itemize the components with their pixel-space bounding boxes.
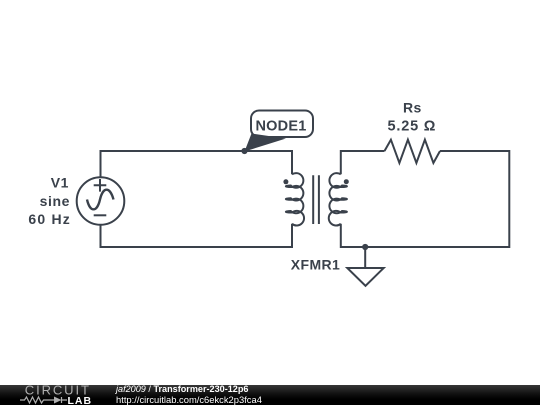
svg-text:Rs: Rs	[403, 100, 422, 116]
svg-text:XFMR1: XFMR1	[291, 257, 340, 273]
svg-text:LAB: LAB	[68, 395, 93, 405]
svg-text:5.25 Ω: 5.25 Ω	[388, 119, 437, 135]
svg-text:sine: sine	[40, 193, 70, 209]
svg-text:NODE1: NODE1	[256, 119, 307, 135]
svg-text:V1: V1	[51, 175, 69, 191]
svg-text:60 Hz: 60 Hz	[28, 211, 71, 227]
